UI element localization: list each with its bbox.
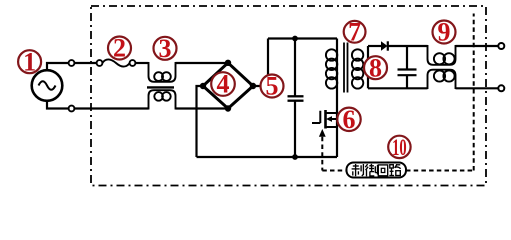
label 4 xyxy=(211,70,235,99)
wire (bottom DC rail) xyxy=(197,156,338,158)
wire (bridge right vertex up to top rail) xyxy=(253,39,268,87)
node (cap bottom junction) xyxy=(292,154,298,160)
gate drive dashed line with arrow xyxy=(319,129,326,137)
label 7 xyxy=(344,17,366,46)
label 3 xyxy=(154,34,177,63)
control circuit box (component 10) xyxy=(347,163,407,178)
label 1 xyxy=(18,47,41,76)
output capacitor C2 xyxy=(398,46,417,88)
transformer T1 core xyxy=(344,43,348,93)
transformer T1 secondary winding xyxy=(352,46,368,89)
svg-text:10: 10 xyxy=(392,135,407,160)
label 6 xyxy=(337,105,360,134)
svg-text:9: 9 xyxy=(438,18,451,47)
kanji 制 xyxy=(352,164,364,176)
common-mode choke L1 core xyxy=(147,86,174,88)
kanji 回 xyxy=(378,165,387,176)
output terminal bottom xyxy=(498,85,504,91)
rectifier diode D2 xyxy=(381,41,388,50)
output terminal top xyxy=(498,43,504,49)
common-mode choke L1 bottom winding xyxy=(149,90,176,109)
MOSFET Q1 (component 6) gate xyxy=(312,110,337,129)
wire (AC bottom lead) xyxy=(47,101,69,109)
fuse F1 (component 2) xyxy=(97,59,136,66)
kanji 路 xyxy=(389,164,400,175)
wire (secondary top lead to diode) xyxy=(368,45,381,47)
wire (diode to output choke, top rail) xyxy=(388,45,428,47)
MOSFET drain/source vertical xyxy=(336,113,338,157)
input terminal top xyxy=(69,60,75,66)
feedback dashed line (box to output sense) xyxy=(406,170,474,172)
common-mode choke L1 (component 3) top winding xyxy=(149,62,176,82)
wire (secondary bottom rail) xyxy=(368,87,428,89)
wire (AC top lead) xyxy=(47,63,69,70)
wire (bridge left vertex down to bottom rail) xyxy=(197,86,204,157)
wire (terminal to fuse) xyxy=(74,62,96,64)
wire (bottom terminal to choke) xyxy=(74,107,148,109)
MOSFET body arrow xyxy=(326,116,332,122)
svg-text:6: 6 xyxy=(343,105,356,134)
svg-text:7: 7 xyxy=(348,17,361,46)
enclosure border (power unit outline, dash-dot) xyxy=(91,6,486,186)
wire (fuse to choke) xyxy=(135,62,148,64)
svg-text:3: 3 xyxy=(159,34,172,63)
svg-text:4: 4 xyxy=(217,70,230,99)
wire (choke to top output terminal) xyxy=(456,45,499,47)
svg-text:2: 2 xyxy=(113,34,126,63)
label 9 xyxy=(433,18,456,47)
wire (choke to bridge top vertex) xyxy=(176,62,229,64)
AC source V1 xyxy=(32,70,63,101)
transformer T1 (component 7) primary winding xyxy=(326,39,337,114)
label 2 xyxy=(108,34,131,63)
wire (choke to bridge bottom vertex) xyxy=(176,107,229,109)
output choke L2 bottom winding xyxy=(428,70,456,89)
bridge rectifier (component 4) xyxy=(200,60,256,112)
node (cap top junction) xyxy=(292,36,298,42)
output choke L2 (component 9) top winding xyxy=(428,45,456,65)
label 10 xyxy=(388,135,410,160)
kanji 御 xyxy=(365,164,377,176)
input terminal bottom xyxy=(69,106,75,112)
smoothing capacitor C1 (component 5) xyxy=(288,39,304,158)
label 8 xyxy=(364,53,387,82)
svg-text:8: 8 xyxy=(369,53,382,82)
label 5 xyxy=(261,72,284,101)
svg-text:5: 5 xyxy=(266,72,279,101)
svg-text:1: 1 xyxy=(23,47,36,76)
wire (choke to bottom output terminal) xyxy=(456,87,499,89)
wire (top DC rail) xyxy=(268,37,337,39)
